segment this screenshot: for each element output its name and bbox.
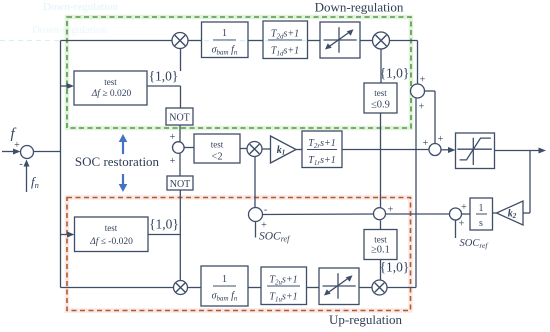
svg-text:+: + <box>420 75 426 86</box>
svg-text:T2ds+1: T2ds+1 <box>271 29 299 41</box>
svg-text:{1,0}: {1,0} <box>380 260 410 275</box>
svg-text:+: + <box>419 102 425 113</box>
svg-text:+: + <box>261 220 267 231</box>
svg-text:<2: <2 <box>211 152 222 163</box>
svg-text:test: test <box>105 223 118 233</box>
svg-text:Δf ≥ 0.020: Δf ≥ 0.020 <box>91 88 132 99</box>
svg-text:s: s <box>479 218 483 229</box>
svg-text:Down-regulation: Down-regulation <box>43 1 119 13</box>
svg-text:-: - <box>19 159 22 170</box>
svg-text:Up-regulation: Up-regulation <box>329 312 402 327</box>
svg-text:T2rs+1: T2rs+1 <box>308 138 335 150</box>
svg-text:Down-regulation: Down-regulation <box>32 24 108 36</box>
svg-text:test: test <box>211 140 224 150</box>
svg-text:+: + <box>170 132 176 143</box>
svg-text:+: + <box>461 202 467 213</box>
svg-text:NOT: NOT <box>169 113 190 124</box>
svg-text:Down-regulation: Down-regulation <box>315 0 404 15</box>
svg-text:test: test <box>104 77 117 87</box>
svg-text:test: test <box>374 235 387 245</box>
svg-text:{1,0}: {1,0} <box>149 69 179 84</box>
svg-text:-: - <box>264 205 267 216</box>
svg-text:test: test <box>374 88 387 98</box>
svg-text:+: + <box>423 138 429 149</box>
svg-text:1: 1 <box>222 274 227 285</box>
svg-text:{1,0}: {1,0} <box>149 217 179 232</box>
svg-text:T2us+1: T2us+1 <box>269 275 297 287</box>
svg-text:+: + <box>170 156 176 167</box>
svg-text:≤0.9: ≤0.9 <box>371 100 390 111</box>
svg-text:1: 1 <box>222 28 227 39</box>
svg-text:T1us+1: T1us+1 <box>269 292 297 304</box>
svg-text:+: + <box>14 140 20 151</box>
svg-text:+: + <box>388 205 394 216</box>
svg-text:T1ds+1: T1ds+1 <box>271 46 299 58</box>
svg-text:≥0.1: ≥0.1 <box>371 245 390 256</box>
svg-text:NOT: NOT <box>170 179 191 190</box>
svg-text:T1rs+1: T1rs+1 <box>308 155 335 167</box>
svg-text:{1,0}: {1,0} <box>380 66 410 81</box>
svg-text:SOC restoration: SOC restoration <box>75 154 160 169</box>
svg-text:+: + <box>438 134 444 145</box>
svg-text:1: 1 <box>479 203 484 214</box>
svg-text:Δf ≤ -0.020: Δf ≤ -0.020 <box>89 236 133 247</box>
svg-text:+: + <box>459 219 465 230</box>
